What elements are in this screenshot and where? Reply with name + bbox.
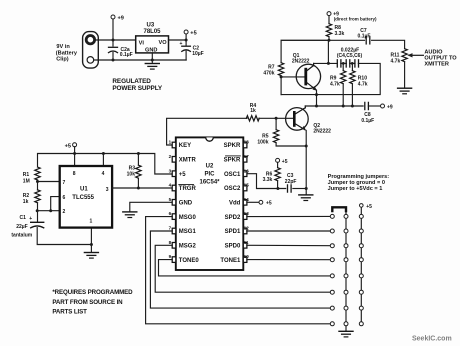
svg-text:+5: +5 (190, 31, 196, 37)
node +5 jumper supply (360, 204, 373, 210)
svg-text:10k: 10k (127, 172, 136, 178)
U2 left pin stubs with numbers (169, 140, 176, 263)
wire jumper +5 column (360, 208, 362, 324)
svg-text:(direct from battery): (direct from battery) (334, 17, 377, 22)
capacitor C8 0.1uF (361, 102, 374, 123)
wire +5 rail of 555 section (38, 154, 173, 175)
timer U1 TLC555 (60, 166, 112, 228)
svg-text:4.7k: 4.7k (391, 58, 401, 64)
wire C4 to C5 (341, 62, 347, 64)
svg-text:U3: U3 (147, 22, 155, 28)
resistor R9 4.7k (330, 63, 346, 106)
label regulated power supply (112, 78, 163, 92)
svg-text:(C4,C5,C6): (C4,C5,C6) (337, 53, 363, 59)
node rail pin8 (73, 152, 76, 155)
svg-text:0.1µF: 0.1µF (358, 34, 371, 40)
resistor R10 4.7k (350, 63, 368, 106)
wire SPD2 pin13 to jumper row1 (247, 215, 330, 217)
svg-text:TLC555: TLC555 (72, 195, 94, 201)
svg-text:12: 12 (244, 226, 250, 231)
U2 left pin labels (179, 143, 200, 264)
svg-text:GND: GND (179, 201, 193, 207)
microcontroller U2 PIC 16C54 (176, 137, 244, 270)
node Q2 base junction (275, 117, 278, 120)
U2 right pin labels (220, 143, 241, 264)
node pin6 to pin2 (49, 209, 52, 212)
svg-text:POWER SUPPLY: POWER SUPPLY (112, 85, 163, 92)
node pin1 C1 junction (90, 243, 93, 246)
node R9 bottom (342, 105, 345, 108)
wire TONE1 pin10 to jumper row4 (247, 259, 330, 261)
wire C1 bottom to U1 pin1 ground (37, 228, 91, 245)
wire C2 bottom to ground rail (185, 51, 187, 60)
wire +9 to input rail and C2a (112, 19, 114, 46)
svg-text:*REQUIRES PROGRAMMED: *REQUIRES PROGRAMMED (52, 289, 133, 296)
wire MSG0 pin6 route to jumper row8 (146, 217, 331, 324)
ground Q2 emitter (299, 195, 313, 201)
svg-text:TONE0: TONE0 (179, 258, 200, 264)
wire SPD0 pin11 to jumper row3 (247, 244, 330, 246)
wire U1 pin8 riser (74, 147, 76, 166)
ground jumper column (339, 331, 353, 337)
resistor R5 100k (257, 118, 306, 146)
svg-text:9V in: 9V in (56, 44, 70, 50)
wire KEY to R4 top run (167, 118, 247, 145)
wire battery minus ground rail (94, 59, 186, 61)
wire MSG1 pin7 route to jumper row7 (150, 231, 330, 308)
wire C2a bottom (112, 52, 114, 60)
svg-text:3: 3 (106, 187, 109, 193)
svg-text:16C54*: 16C54* (199, 179, 220, 185)
svg-text:100k: 100k (257, 140, 268, 146)
wire Q1 emitter down (316, 90, 318, 106)
node R10 top (351, 62, 354, 65)
wire jumper ground column (345, 210, 347, 331)
jumper matrix +5 pins column (359, 214, 363, 325)
svg-text:VI: VI (139, 41, 145, 47)
svg-text:1M: 1M (23, 178, 30, 184)
node pin2 junction (36, 209, 39, 212)
svg-text:+9: +9 (118, 16, 124, 22)
node battery plus junction (112, 39, 115, 42)
svg-text:16: 16 (244, 168, 250, 173)
svg-text:10: 10 (244, 254, 250, 259)
svg-text:(Battery: (Battery (56, 50, 78, 56)
node R7 Q1 base (280, 75, 283, 78)
svg-text:OSC2: OSC2 (224, 186, 241, 192)
capacitor C5 (346, 60, 350, 67)
svg-text:PART FROM SOURCE IN: PART FROM SOURCE IN (52, 299, 123, 306)
wire U1 pin2 (37, 210, 60, 212)
svg-text:Programming jumpers:: Programming jumpers: (328, 174, 390, 180)
svg-text:1k: 1k (23, 199, 29, 205)
svg-text:10µF: 10µF (192, 51, 204, 57)
wire Q1 base (281, 76, 306, 78)
svg-text:0.1µF: 0.1µF (120, 52, 133, 58)
svg-text:SPD2: SPD2 (225, 215, 241, 221)
svg-text:+5: +5 (282, 159, 288, 165)
svg-text:470k: 470k (263, 70, 274, 76)
ground power supply (145, 64, 159, 70)
transistor Q2 2N2222 (286, 106, 332, 134)
resistor R1 1M (23, 167, 40, 184)
node Q1 emitter feedback rail (315, 93, 318, 96)
label requires programmed part (52, 289, 133, 316)
node R5 emitter junction (305, 145, 308, 148)
svg-text:MSG1: MSG1 (179, 229, 197, 235)
wire +5 terminal to C2 (185, 34, 187, 45)
svg-text:2N2222: 2N2222 (313, 128, 331, 134)
svg-text:tantalum: tantalum (11, 233, 32, 239)
svg-text:+5: +5 (366, 204, 372, 210)
svg-text:+5: +5 (266, 201, 272, 207)
svg-text:4.7k: 4.7k (330, 81, 340, 87)
node pin7 junction (36, 180, 39, 183)
jumper matrix signal pins column (330, 214, 334, 325)
resistor R4 1k (246, 103, 259, 121)
wire R1 to R2 (37, 180, 39, 190)
svg-text:SPD0: SPD0 (225, 244, 241, 250)
svg-text:22µF: 22µF (16, 224, 28, 230)
wire TONE0 pin9 route to jumper row5 (159, 260, 331, 276)
svg-text:14: 14 (244, 197, 250, 202)
svg-text:13: 13 (244, 211, 250, 216)
capacitor C1 22uF tantalum (11, 215, 43, 239)
svg-text:Jumper to ground = 0: Jumper to ground = 0 (328, 180, 385, 186)
svg-text:XMTR: XMTR (179, 158, 197, 164)
node +9 top of power supply (111, 15, 124, 22)
node +5 above R6 (276, 158, 288, 164)
label 0.022uF C4 C5 C6 (337, 47, 363, 58)
svg-text:3.3k: 3.3k (263, 177, 273, 183)
svg-text:SPD1: SPD1 (225, 229, 241, 235)
capacitor C3 22pF (285, 173, 297, 192)
svg-text:0.1µF: 0.1µF (361, 118, 374, 124)
wire battery plus to U3 VI (95, 39, 136, 41)
node C2a to ground rail (112, 59, 115, 62)
wire Vdd pin14 to +5 (247, 201, 259, 203)
label audio output to xmitter (424, 50, 457, 68)
node U3 GND to rail (151, 59, 154, 62)
jumper plug installed on row1 (332, 207, 346, 212)
node R9 top (342, 62, 345, 65)
wire C7 to R11 (372, 40, 405, 48)
potentiometer R11 4.7k (391, 49, 424, 88)
svg-text:22pF: 22pF (285, 179, 297, 185)
svg-text:SPKR: SPKR (224, 143, 241, 149)
node R3 TRGR junction (137, 187, 140, 190)
node Q1 emitter to collector line (315, 105, 318, 108)
svg-text:OSC1: OSC1 (224, 172, 241, 178)
svg-text:2N2222: 2N2222 (292, 58, 310, 64)
node +5 regulated output terminal (184, 30, 197, 37)
wire U1 pin7 (38, 181, 60, 183)
svg-text:SPKR: SPKR (224, 158, 241, 164)
svg-text:+9: +9 (387, 104, 393, 110)
node R6 OSC1 C3 (276, 187, 279, 190)
battery label 9V in (Battery Clip) (56, 44, 78, 63)
wire OSC1 to RC node (247, 174, 286, 189)
resistor R6 3.3k (263, 162, 281, 188)
svg-text:18: 18 (244, 140, 250, 145)
ground below U1 pin1 (84, 253, 98, 259)
svg-text:4.7k: 4.7k (358, 81, 368, 87)
wire MSG2 pin8 route to jumper row6 (155, 245, 330, 292)
capacitor C7 0.1uF (358, 28, 371, 44)
wire Q2 emitter down (305, 130, 307, 194)
resistor R7 470k (263, 40, 329, 94)
svg-text:OUTPUT TO: OUTPUT TO (424, 56, 457, 62)
svg-text:VO: VO (159, 40, 168, 46)
svg-text:+5: +5 (179, 172, 187, 178)
wire U3 VO to +5 node (169, 39, 187, 41)
U2 right pin stubs with numbers (243, 140, 249, 263)
svg-text:8: 8 (73, 171, 76, 177)
svg-text:PIC: PIC (204, 171, 215, 177)
resistor R3 10k (127, 154, 141, 189)
svg-text:3.3k: 3.3k (335, 31, 345, 37)
node rail R3 (137, 152, 140, 155)
svg-text:SeekIC.com: SeekIC.com (412, 336, 452, 343)
node +9 direct from battery (327, 12, 377, 22)
svg-text:2: 2 (63, 209, 66, 215)
ground below R11 (398, 88, 412, 94)
jumper matrix ground pins column (344, 214, 348, 325)
svg-text:GND: GND (145, 47, 157, 53)
node +5 above U1 (65, 143, 77, 150)
svg-text:4: 4 (102, 171, 105, 177)
wire U1 pin1 down (90, 228, 92, 252)
wire Q2 collector line to C8 (305, 105, 363, 107)
transistor Q1 2N2222 (292, 53, 321, 91)
svg-text:AUDIO: AUDIO (424, 50, 443, 56)
node +5 output junction (185, 39, 188, 42)
node +9 right (381, 104, 393, 110)
battery clip J1 (83, 32, 99, 69)
svg-text:KEY: KEY (179, 143, 191, 149)
node +5 at Vdd (259, 200, 272, 206)
svg-text:17: 17 (244, 154, 250, 159)
svg-text:7: 7 (63, 180, 66, 186)
wire U3 GND pin down (151, 53, 153, 63)
capacitor C4 (337, 60, 341, 67)
svg-text:MSG0: MSG0 (179, 215, 197, 221)
svg-text:R2: R2 (23, 193, 30, 199)
svg-text:6: 6 (63, 195, 66, 201)
node collector R8 junction (327, 62, 330, 65)
svg-text:Vdd: Vdd (229, 201, 241, 207)
wire C6 to feedback corner (281, 63, 380, 94)
wire U1 pin6 jog (51, 197, 60, 211)
capacitor C2a 0.1uF (109, 47, 133, 58)
svg-text:+5: +5 (65, 143, 71, 149)
svg-text:TRGR: TRGR (179, 186, 197, 192)
wire C3 to Q2 emitter line (293, 188, 306, 190)
ground U2 pin5 (123, 212, 137, 218)
svg-text:U2: U2 (206, 163, 214, 169)
svg-text:78L05: 78L05 (144, 29, 162, 35)
svg-text:R3: R3 (129, 165, 136, 171)
regulator U3 78L05 (136, 22, 169, 53)
svg-text:1k: 1k (250, 108, 256, 114)
svg-text:11: 11 (244, 240, 249, 245)
wire U1 pin3 to TRGR (112, 187, 172, 189)
svg-text:+: + (29, 216, 32, 222)
wire U1 pin4 riser (102, 154, 104, 167)
resistor R8 3.3k (326, 16, 344, 41)
svg-text:PARTS LIST: PARTS LIST (52, 309, 87, 316)
resistor R2 1k (23, 190, 40, 205)
capacitor C6 (355, 60, 359, 67)
svg-text:C1: C1 (20, 215, 27, 221)
wire C8 to +9 (368, 105, 380, 107)
svg-text:MSG2: MSG2 (179, 244, 197, 250)
node rail pin4 (102, 152, 105, 155)
capacitor C2 10uF (180, 41, 204, 57)
node R10 bottom (351, 105, 354, 108)
svg-text:R1: R1 (23, 172, 30, 178)
wire C5 to C6 (350, 62, 355, 64)
wire top rail to C7 (281, 39, 364, 41)
node R8 rail junction (328, 39, 331, 42)
svg-text:TONE1: TONE1 (220, 258, 241, 264)
wire R8 riser to phase shift line (327, 40, 329, 63)
node C3 emitter junction (305, 187, 308, 190)
wire U2 GND pin5 to ground (130, 202, 172, 211)
svg-text:XMITTER: XMITTER (424, 62, 449, 68)
svg-text:Jumper to +5Vdc = 1: Jumper to +5Vdc = 1 (328, 186, 383, 192)
wire R4 to Q2 base (259, 117, 294, 119)
wire R2 to C1 (37, 203, 39, 222)
label programming jumpers (328, 174, 390, 192)
svg-text:15: 15 (244, 183, 250, 188)
wire SPD1 pin12 to jumper row2 (247, 230, 330, 232)
svg-text:Clip): Clip) (56, 57, 69, 63)
svg-text:U1: U1 (80, 187, 88, 193)
svg-text:1: 1 (90, 219, 93, 225)
wire Q1 collector to C4 (314, 62, 338, 64)
